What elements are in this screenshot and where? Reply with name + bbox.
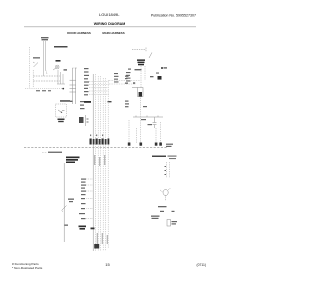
label column wire list mid columns: [114, 72, 131, 83]
wire leads around capacitor: [160, 188, 171, 201]
svg-text:WIRING DIAGRAM: WIRING DIAGRAM: [94, 22, 126, 26]
connector plug marks above separator: [128, 143, 162, 146]
label control board title: [137, 59, 145, 65]
label thermostat small: [143, 106, 147, 107]
wire dotted riser board left: [140, 66, 142, 88]
wire door lamp lead: [46, 70, 47, 74]
wire main bundle trunk 3: [97, 76, 99, 251]
label attachment note: [54, 46, 68, 48]
wire dash mark left of bundle: [91, 228, 95, 230]
label rotated wire names lower bundle: [97, 233, 108, 244]
wire main bundle trunk 5: [102, 78, 104, 251]
label compressor: [151, 216, 160, 220]
wire dotted riser board right: [144, 66, 146, 80]
ice maker motor contacts: [58, 110, 65, 112]
label energized note right: [152, 156, 177, 160]
svg-text:LGUI1849L: LGUI1849L: [99, 12, 120, 17]
wire stubs left of riser: [70, 80, 76, 92]
svg-text:(0711): (0711): [196, 263, 206, 267]
svg-text:* Non-Illustrated Parts: * Non-Illustrated Parts: [12, 266, 43, 270]
label note under separator: [42, 151, 47, 153]
wire main bundle trunk 1: [92, 74, 94, 251]
svg-text:MAIN HARNESS: MAIN HARNESS: [102, 31, 124, 35]
capacitor C1 bracket: [153, 117, 157, 128]
label defrost heater: [68, 199, 74, 203]
label light switch: [33, 57, 40, 58]
label harness junction: [79, 117, 89, 123]
wire main bundle trunk 6: [105, 78, 107, 251]
label fuse rating: [150, 76, 154, 77]
label dispenser connector: [41, 37, 49, 40]
label water valve pins: [80, 101, 85, 109]
label relay: [158, 206, 167, 207]
wire main bundle trunk 2: [95, 74, 97, 251]
svg-text:Publication No. 5995527307: Publication No. 5995527307: [151, 14, 196, 18]
lamp L1: [55, 65, 59, 69]
overload protector box: [167, 220, 171, 227]
wire dotted run to splice: [25, 88, 63, 90]
header rule: [24, 26, 196, 28]
label neutral terminal: [125, 82, 135, 84]
label rotated wire names mid bundle: [94, 155, 105, 166]
wire dotted drops to connectors: [129, 120, 161, 143]
label interior lighting block: [66, 157, 80, 164]
thermostat dotted pair right: [167, 162, 170, 178]
switch S1 door light switch: [33, 62, 38, 67]
wire dotted drop from timer: [140, 97, 142, 147]
node splice dot: [62, 88, 64, 90]
label ground lug bottom: [94, 244, 99, 249]
label riser tag: [65, 225, 69, 226]
wire ticks from labels to bundle: [87, 179, 94, 219]
label GD right: [161, 67, 167, 69]
wire dotted cross runs right: [109, 81, 140, 85]
separator dashed line: [24, 147, 167, 149]
wire junction drop: [84, 115, 86, 126]
ice maker dashed enclosure: [56, 104, 67, 117]
label board pins: [128, 69, 159, 74]
wire horizontal run right block: [133, 116, 163, 118]
label column defrost group: [125, 101, 129, 108]
label overload: [172, 221, 178, 225]
svg-text:DOOR HARNESS: DOOR HARNESS: [67, 31, 91, 35]
wire dotted riser 2: [32, 70, 34, 87]
wire slant lead: [149, 53, 152, 59]
wire stub to timer: [132, 87, 138, 89]
label voltage note: [166, 144, 173, 147]
wire main bundle trunk 7: [107, 80, 109, 248]
compressor run capacitor cluster: [163, 189, 168, 195]
wire dashed jumper 2: [33, 80, 60, 82]
label timer feed: [70, 101, 91, 103]
label ground GD: [64, 69, 68, 70]
wire cabinet ground riser: [63, 163, 65, 242]
label L1 terminal: [125, 76, 129, 80]
label lamp: [56, 60, 61, 62]
node ticks at riser top: [73, 67, 77, 69]
label below run: [141, 119, 152, 125]
wire dotted runs to main bundle: [89, 82, 109, 95]
wire main bundle trunk 4: [100, 76, 102, 251]
label relay coil: [158, 76, 162, 80]
timer T1 box: [138, 88, 144, 97]
wire small dash node: [108, 101, 112, 102]
label relay pins: [160, 211, 175, 212]
node ticks on run: [136, 116, 158, 118]
label column wire list P1: [84, 68, 89, 95]
wire dotted riser left: [29, 47, 31, 88]
wire door harness pair: [44, 41, 46, 76]
wire dashed branch top right: [132, 48, 146, 53]
timer motor fill: [139, 92, 142, 97]
wire lamp lead: [53, 68, 56, 70]
label heater block dark: [79, 226, 87, 230]
label ice maker motor: [58, 119, 65, 123]
label wire codes under run: [36, 90, 51, 91]
label thermostat ticks: [165, 166, 167, 175]
wire dashed jumper 1: [33, 75, 60, 77]
bracket door connector: [57, 70, 65, 84]
label ice maker title: [60, 100, 70, 102]
connector J2 pin row: [90, 135, 110, 145]
label column wire list lower left: [79, 179, 86, 220]
svg-text:15: 15: [105, 262, 110, 267]
wire riser pair center-left: [73, 68, 76, 104]
switch S2 on riser: [62, 206, 67, 212]
